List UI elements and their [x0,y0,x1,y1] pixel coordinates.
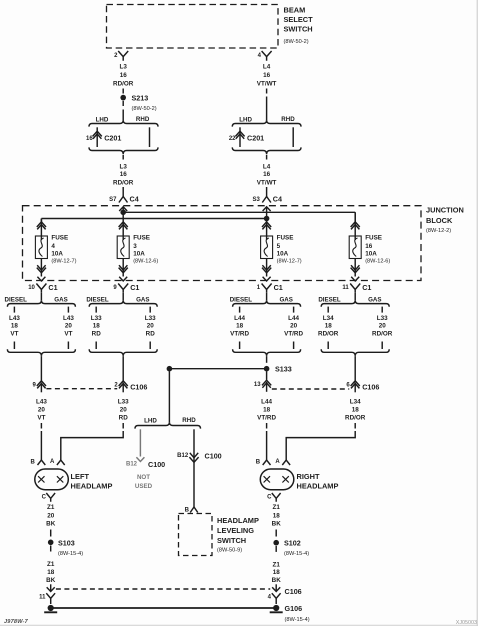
wire Z1 18 BK (right headlamp pin C) [272,504,282,537]
C201 merge brace [89,147,158,159]
wire into DIESEL/GAS split [354,293,356,300]
connector C1 pin 11 [342,283,371,293]
svg-text:SELECT: SELECT [284,15,314,24]
svg-text:L33: L33 [145,315,156,322]
wire low beam bus [123,212,355,222]
svg-text:B: B [185,508,190,514]
left headlamp pin C [42,493,55,502]
svg-text:VT/RD: VT/RD [257,415,276,422]
node S102 [273,539,309,557]
wire L34 18 RD/OR (C106 to right headlamp pin A) [286,399,366,461]
svg-text:C1: C1 [362,283,371,292]
wire (S213 to C201) [122,101,124,120]
svg-text:20: 20 [290,323,298,330]
svg-text:C106: C106 [130,383,147,392]
connector C201 pin 22 (LHD branch) [229,127,264,147]
svg-text:L33: L33 [91,315,102,322]
svg-text:13: 13 [254,382,261,388]
fuse F16 holder input [351,212,360,240]
svg-text:RD/OR: RD/OR [318,331,339,338]
wire (merge to S133) [266,356,268,363]
svg-text:RD/OR: RD/OR [372,331,393,338]
svg-text:20: 20 [65,323,73,330]
node S213 [120,94,156,112]
svg-text:BK: BK [46,577,56,584]
wire (merge to C106 pin 6) [354,356,356,382]
fuse F3 holder output [119,259,128,282]
svg-text:VT: VT [37,415,45,422]
svg-text:S3: S3 [252,197,260,203]
DIESEL/GAS split brace [86,297,157,307]
wire into DIESEL/GAS split [122,293,124,300]
svg-text:10: 10 [28,285,35,291]
wire L34 RD/OR (diesel) [318,307,339,349]
svg-text:LEVELING: LEVELING [217,526,254,535]
wire L43 20 VT (C106 to left headlamp pin B) [36,399,47,461]
svg-text:4: 4 [51,243,55,250]
wire L44 VT/RD (diesel) [230,307,249,349]
wire L33 RD (gas) [145,307,156,349]
wire L4 16 VT/WT (pin 4 to C201) [257,64,277,121]
svg-text:NOT: NOT [137,474,150,481]
svg-text:(8W-50-9): (8W-50-9) [217,548,242,554]
svg-text:C4: C4 [130,195,139,204]
svg-text:(8W-12-7): (8W-12-7) [277,258,302,264]
ground splice at pin 11 [44,605,57,612]
DIESEL/GAS merge brace [7,349,75,356]
connector C1 pin 10 [28,283,57,293]
svg-text:RIGHT: RIGHT [297,472,320,481]
svg-text:C100: C100 [148,460,165,469]
svg-text:20: 20 [38,407,46,414]
svg-text:18: 18 [263,407,271,414]
svg-text:C1: C1 [130,283,139,292]
wire (merge to C106 pin 2) [122,356,124,382]
fuse F16 16 10A 8W-12-6 [349,235,390,265]
headlamp leveling switch [179,514,259,556]
svg-text:B: B [31,460,36,466]
svg-text:L3: L3 [120,164,128,171]
svg-text:L43: L43 [63,315,74,322]
connector C106 boundary (pins 13-6) [272,388,349,390]
connector C4 pin S7 [109,195,139,213]
svg-text:A: A [50,459,55,465]
drawing number XJ05003 [456,620,477,626]
beam select switch pin 4 [258,51,272,61]
fuse F4 holder output [37,259,46,282]
svg-text:(8W-12-6): (8W-12-6) [365,258,390,264]
fuse F3 3 10A 8W-12-6 [117,235,158,265]
svg-text:18: 18 [236,323,244,330]
svg-text:VT: VT [64,331,72,338]
svg-text:11: 11 [342,285,349,291]
svg-text:5: 5 [277,243,281,250]
svg-text:RHD: RHD [136,116,150,123]
svg-text:J978W-7: J978W-7 [4,619,29,625]
connector C106 boundary (pin 11 to pin 4) [56,588,270,590]
ground G106 [270,604,310,623]
connector C100 pin B12 (RHD) [177,429,222,462]
svg-text:RHD: RHD [182,417,196,424]
DIESEL/GAS merge brace [321,349,389,356]
svg-text:FUSE: FUSE [365,235,382,242]
svg-text:3: 3 [133,243,137,250]
svg-text:C106: C106 [362,383,379,392]
svg-text:Z1: Z1 [47,561,55,568]
wire (S133 tap down to LHD/RHD split) [168,371,170,422]
svg-text:HEADLAMP: HEADLAMP [297,482,339,491]
svg-text:(8W-12-2): (8W-12-2) [426,228,451,234]
node S103 [48,538,83,557]
wire L3 16 RD/OR (C201 to C4) [113,164,134,197]
C201 RHD branch wire [292,127,294,147]
wire L33 RD (diesel) [91,307,102,349]
svg-text:DIESEL: DIESEL [5,297,28,304]
wire into DIESEL/GAS split [40,293,42,300]
fuse F5 5 10A 8W-12-7 [261,235,302,265]
svg-text:BLOCK: BLOCK [426,216,453,225]
svg-text:VT: VT [10,331,18,338]
wire L44 18 VT/RD (C106 to right headlamp pin B) [257,399,276,461]
svg-text:16: 16 [86,136,93,142]
svg-text:GAS: GAS [368,297,381,304]
svg-text:L44: L44 [288,315,299,322]
svg-text:(8W-50-2): (8W-50-2) [132,106,157,112]
sheet number J978W-7 [4,619,29,625]
svg-text:C100: C100 [205,452,222,461]
svg-text:C4: C4 [273,195,282,204]
svg-text:18: 18 [47,569,55,576]
svg-text:(8W-15-4): (8W-15-4) [285,617,310,623]
svg-text:S213: S213 [132,94,149,103]
connector C106 pin 9 [33,381,46,393]
wire L43 VT (gas) [63,307,74,349]
svg-text:RD: RD [92,331,102,338]
svg-text:S133: S133 [275,365,292,374]
wire (C100 to headlamp leveling switch pin B) [193,463,195,508]
svg-text:18: 18 [93,323,101,330]
svg-text:VT/RD: VT/RD [230,331,249,338]
node at S7 feed (low beam bus) [120,210,126,216]
svg-text:S7: S7 [109,197,117,203]
svg-text:Z1: Z1 [273,504,281,511]
svg-text:L44: L44 [234,315,245,322]
svg-text:C201: C201 [104,134,121,143]
connector C106 boundary (pins 9-2) [46,388,117,390]
beam select switch pin 2 [114,51,128,61]
svg-text:BK: BK [272,521,282,528]
right headlamp pin A [275,459,290,465]
svg-text:JUNCTION: JUNCTION [426,206,464,215]
svg-text:10A: 10A [133,251,145,258]
wire Z1 20 BK (left headlamp pin C) [46,504,56,537]
svg-text:USED: USED [135,483,153,490]
svg-text:GAS: GAS [136,297,149,304]
svg-text:DIESEL: DIESEL [86,297,109,304]
svg-text:L33: L33 [118,399,129,406]
svg-text:DIESEL: DIESEL [318,297,341,304]
svg-text:L44: L44 [261,399,272,406]
svg-text:22: 22 [229,136,236,142]
connector C201 pin 22 LHD/RHD split [232,116,301,127]
svg-text:RD/OR: RD/OR [345,415,366,422]
DIESEL/GAS merge brace [89,349,157,356]
svg-text:G106: G106 [285,604,303,613]
svg-text:16: 16 [263,171,271,178]
svg-text:S102: S102 [284,539,301,548]
DIESEL/GAS merge brace [233,349,301,356]
svg-text:C201: C201 [247,134,264,143]
connector C201 pin 16 LHD/RHD split [89,116,158,127]
svg-text:20: 20 [379,323,387,330]
svg-text:L34: L34 [350,399,361,406]
svg-text:B12: B12 [126,462,138,468]
connector C4 pin S3 [252,195,282,219]
ground bus wire [51,607,277,609]
svg-text:C: C [42,495,47,501]
svg-text:(8W-15-4): (8W-15-4) [58,551,83,557]
svg-text:20: 20 [120,407,128,414]
wire L33 20 RD (C106 to left headlamp pin A) [61,399,129,461]
svg-text:VT/WT: VT/WT [257,180,277,187]
connector C1 pin 9 [113,283,139,293]
right headlamp pin B [256,460,271,466]
right headlamp [260,469,338,491]
svg-text:GAS: GAS [54,297,67,304]
left headlamp pin B [31,460,46,466]
svg-text:10A: 10A [277,251,289,258]
wire Z1 18 BK (S102 to C106 pin 4) [272,546,282,592]
svg-text:FUSE: FUSE [277,235,294,242]
svg-text:L43: L43 [9,315,20,322]
svg-text:VT/WT: VT/WT [257,81,277,88]
wire L33 RD/OR (gas) [372,307,393,349]
svg-text:10A: 10A [51,251,63,258]
svg-text:L4: L4 [263,64,271,71]
connector C201 pin 16 (LHD branch) [86,127,121,147]
svg-text:16: 16 [365,243,373,250]
fuse F3 holder input [119,212,128,240]
svg-text:L3: L3 [120,64,128,71]
svg-text:S103: S103 [58,538,75,547]
fuse F4 holder input [37,219,46,241]
svg-text:16: 16 [120,72,128,79]
wire Z1 18 BK (S103 to C106 pin 11) [46,546,56,592]
svg-text:FUSE: FUSE [133,235,150,242]
svg-text:L4: L4 [263,164,271,171]
svg-text:DIESEL: DIESEL [230,297,253,304]
svg-text:16: 16 [120,171,128,178]
svg-text:RD: RD [146,331,156,338]
right headlamp pin C [267,493,280,502]
svg-text:RHD: RHD [281,116,295,123]
svg-text:HEADLAMP: HEADLAMP [217,516,259,525]
left headlamp pin A [50,459,65,465]
fuse F16 holder output [351,259,360,282]
fuse F4 4 10A 8W-12-7 [35,235,76,265]
svg-text:C1: C1 [48,283,57,292]
junction block [23,206,464,281]
wire (merge to C106 pin 9) [40,356,42,382]
svg-text:BEAM: BEAM [284,6,306,15]
svg-text:18: 18 [325,323,333,330]
svg-text:A: A [275,459,280,465]
C201 RHD branch wire [149,127,151,147]
svg-text:HEADLAMP: HEADLAMP [71,482,113,491]
connector C106 pin 6 [346,381,379,393]
node at S3 feed (high beam bus) [264,216,270,222]
svg-text:XJ05003: XJ05003 [456,620,477,626]
left headlamp [35,469,113,491]
svg-text:18: 18 [273,569,281,576]
svg-text:16: 16 [263,72,271,79]
connector C106 pin 13 [254,380,271,392]
svg-text:C106: C106 [285,587,302,596]
wire into DIESEL/GAS split [266,293,268,300]
headlamp leveling switch pin B [185,507,198,514]
connector C1 pin 1 [257,283,283,293]
svg-text:20: 20 [147,323,155,330]
wire (S133 to C106 pin 13) [266,371,268,379]
wire L4 16 VT/WT (C201 to C4) [257,164,277,197]
DIESEL/GAS split brace [318,297,389,307]
svg-text:LEFT: LEFT [71,472,90,481]
svg-text:10A: 10A [365,251,377,258]
connector C106 pin 4 [268,587,302,604]
svg-text:SWITCH: SWITCH [217,536,246,545]
fuse F5 holder input [262,219,271,241]
connector C106 pin 11 [39,587,55,604]
beam select switch [107,5,314,49]
LHD/RHD split brace for C100 [135,417,201,429]
fuse F5 holder output [262,259,271,282]
wire L3 16 RD/OR (pin 2 to S213) [113,64,134,94]
svg-text:20: 20 [47,512,55,519]
svg-text:(8W-50-2): (8W-50-2) [284,39,309,45]
wire L43 VT (diesel) [9,307,20,349]
connector C100 pin B12 (LHD, not used) [126,429,165,490]
svg-text:LHD: LHD [144,417,157,424]
wire L44 VT/RD (gas) [284,307,303,349]
svg-text:RD: RD [119,415,129,422]
wire high beam bus [41,219,266,223]
svg-text:11: 11 [39,595,46,601]
svg-text:SWITCH: SWITCH [284,25,313,34]
svg-text:18: 18 [11,323,19,330]
DIESEL/GAS split brace [5,297,76,307]
svg-text:(8W-12-6): (8W-12-6) [133,258,158,264]
svg-text:C1: C1 [274,283,283,292]
svg-text:Z1: Z1 [47,504,55,511]
svg-text:L43: L43 [36,399,47,406]
C201 merge brace [232,147,301,159]
svg-text:L34: L34 [323,315,334,322]
svg-text:LHD: LHD [239,116,252,123]
svg-text:BK: BK [46,521,56,528]
svg-text:RD/OR: RD/OR [113,81,134,88]
svg-text:(8W-15-4): (8W-15-4) [284,551,309,557]
svg-text:C: C [267,495,272,501]
svg-text:18: 18 [273,512,281,519]
wire (S133 tap to headlamp leveling feed) [167,366,267,372]
svg-text:(8W-12-7): (8W-12-7) [51,258,76,264]
svg-text:B: B [256,460,261,466]
DIESEL/GAS split brace [230,297,301,307]
svg-text:B12: B12 [177,453,189,459]
svg-text:BK: BK [272,577,282,584]
svg-text:18: 18 [352,407,360,414]
connector C106 pin 2 [114,381,147,393]
svg-text:Z1: Z1 [273,561,281,568]
svg-text:VT/RD: VT/RD [284,331,303,338]
node S133 [264,365,292,374]
svg-text:RD/OR: RD/OR [113,180,134,187]
svg-text:L33: L33 [377,315,388,322]
svg-text:FUSE: FUSE [51,235,68,242]
svg-text:LHD: LHD [96,116,109,123]
svg-text:GAS: GAS [279,297,292,304]
